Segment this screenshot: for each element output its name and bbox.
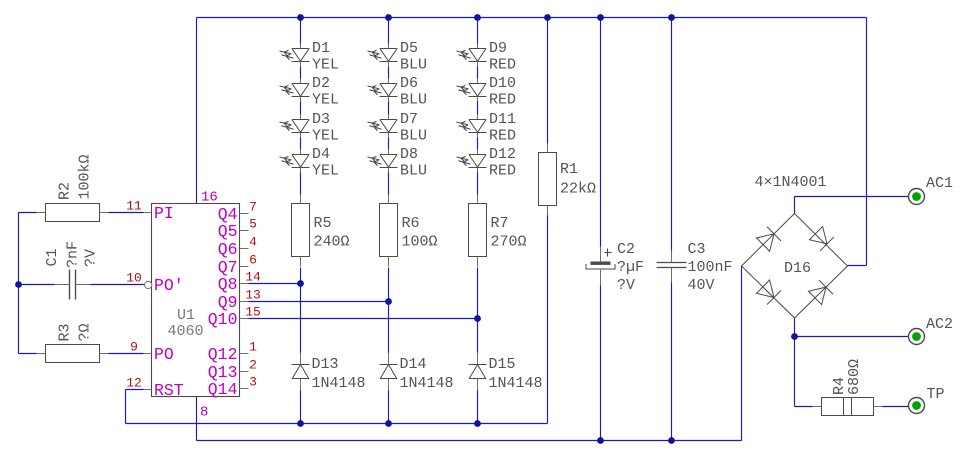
diode D13 bbox=[292, 353, 366, 393]
svg-text:R3: R3 bbox=[57, 323, 74, 341]
wire Q9 net bbox=[249, 301, 389, 303]
pin 7 Q4 bbox=[218, 200, 257, 224]
svg-text:RST: RST bbox=[154, 381, 184, 400]
wire col477 seg4 bbox=[477, 173, 479, 195]
pin 6 Q7 bbox=[218, 253, 257, 277]
svg-text:TP: TP bbox=[927, 386, 945, 403]
wire col388 mid bbox=[388, 268, 390, 353]
LED D11 bbox=[457, 111, 517, 145]
wire U1 pin16 riser bbox=[196, 18, 198, 204]
wire col300 seg4 bbox=[300, 173, 302, 195]
svg-text:BLU: BLU bbox=[400, 92, 427, 109]
wire bridge bottom drop bbox=[794, 318, 796, 407]
svg-text:D5: D5 bbox=[400, 40, 418, 57]
wire R4 to TP link bbox=[883, 406, 909, 408]
svg-text:D1: D1 bbox=[312, 40, 330, 57]
svg-text:Q5: Q5 bbox=[218, 222, 238, 241]
wire col477 bottom bbox=[477, 391, 479, 424]
wire C1 left link bbox=[19, 284, 55, 286]
wire col388 seg4 bbox=[388, 173, 390, 195]
wire right drop to bridge bbox=[866, 18, 868, 266]
svg-text:100kΩ: 100kΩ bbox=[77, 154, 94, 199]
svg-text:4: 4 bbox=[249, 235, 257, 250]
junction rail-col1 bbox=[297, 14, 304, 21]
svg-text:Q8: Q8 bbox=[218, 275, 238, 294]
junction left bus C1 bbox=[15, 281, 22, 288]
wire R1 top column bbox=[547, 18, 549, 144]
wire R2 to pin11 bbox=[109, 212, 144, 214]
wire col300 seg3 bbox=[300, 138, 302, 150]
svg-text:10: 10 bbox=[126, 271, 142, 286]
wire R3 to pin9 bbox=[109, 353, 144, 355]
svg-text:8: 8 bbox=[200, 405, 208, 421]
wire C3 top column bbox=[671, 18, 673, 251]
svg-text:1: 1 bbox=[249, 340, 257, 355]
wire R3 left link bbox=[19, 353, 37, 355]
resistor R6 bbox=[380, 195, 438, 267]
svg-text:YEL: YEL bbox=[312, 163, 339, 180]
svg-text:U1: U1 bbox=[177, 307, 195, 324]
svg-text:RED: RED bbox=[489, 57, 516, 74]
pin 2 Q13 bbox=[208, 358, 257, 382]
capacitor C1 bbox=[44, 241, 100, 300]
svg-text:BLU: BLU bbox=[400, 163, 427, 180]
LED D9 bbox=[457, 40, 517, 74]
pin 12 RST bbox=[126, 376, 184, 400]
wire col477 rail stub bbox=[477, 18, 479, 44]
svg-text:D14: D14 bbox=[400, 356, 427, 373]
svg-text:13: 13 bbox=[245, 288, 261, 303]
LED D10 bbox=[457, 75, 517, 109]
terminal AC2 bbox=[909, 316, 954, 345]
svg-text:1N4148: 1N4148 bbox=[489, 375, 543, 392]
svg-text:680Ω: 680Ω bbox=[846, 359, 863, 395]
svg-text:Q14: Q14 bbox=[208, 380, 238, 399]
terminal TP bbox=[909, 386, 945, 414]
resistor R1 bbox=[539, 144, 597, 216]
wire AC2 link bbox=[795, 336, 909, 338]
wire col300 seg1 bbox=[300, 67, 302, 79]
svg-text:D12: D12 bbox=[489, 146, 516, 163]
junction Q9-col2 bbox=[385, 298, 392, 305]
svg-text:6: 6 bbox=[249, 253, 257, 268]
wire col300 seg2 bbox=[300, 102, 302, 115]
svg-text:?nF: ?nF bbox=[65, 241, 82, 268]
svg-text:C3: C3 bbox=[688, 241, 706, 258]
wire col388 seg3 bbox=[388, 138, 390, 150]
pin 11 PI bbox=[126, 199, 174, 223]
svg-text:?Ω: ?Ω bbox=[77, 323, 94, 341]
bridge rectifier D16 bbox=[742, 174, 848, 318]
svg-text:D9: D9 bbox=[489, 40, 507, 57]
svg-text:D13: D13 bbox=[312, 356, 339, 373]
svg-text:2: 2 bbox=[249, 358, 257, 373]
IC U1 4060 body bbox=[152, 204, 240, 397]
svg-text:3: 3 bbox=[249, 375, 257, 390]
wire left bus bbox=[18, 213, 20, 354]
wire col477 seg1 bbox=[477, 67, 479, 79]
LED D3 bbox=[280, 111, 340, 145]
wire C3 bottom column bbox=[671, 283, 673, 441]
LED D2 bbox=[280, 75, 340, 109]
wire col300 bottom bbox=[300, 391, 302, 424]
resistor R4 bbox=[813, 359, 883, 416]
svg-text:9: 9 bbox=[130, 340, 138, 355]
svg-text:D3: D3 bbox=[312, 111, 330, 128]
pin 8 VSS bbox=[200, 405, 208, 421]
svg-text:AC2: AC2 bbox=[926, 316, 953, 333]
wire C2 bottom column bbox=[600, 286, 602, 441]
junction gnd-C2 bbox=[597, 437, 604, 444]
LED D4 bbox=[280, 146, 340, 180]
resistor R5 bbox=[292, 195, 350, 267]
svg-text:11: 11 bbox=[126, 199, 142, 214]
junction rail-col2 bbox=[385, 14, 392, 21]
wire col477 seg3 bbox=[477, 138, 479, 150]
svg-text:PO': PO' bbox=[154, 276, 184, 295]
wire col388 rail stub bbox=[388, 18, 390, 44]
diode D15 bbox=[469, 353, 543, 393]
wire RST drop bbox=[125, 390, 127, 424]
svg-text:R6: R6 bbox=[402, 215, 420, 232]
svg-text:?V: ?V bbox=[617, 277, 635, 294]
wire col388 bottom bbox=[388, 391, 390, 424]
wire ground rail riser to bridge bbox=[741, 266, 743, 441]
svg-text:1N4148: 1N4148 bbox=[400, 375, 454, 392]
wire diode return rail bbox=[126, 423, 548, 425]
svg-text:C2: C2 bbox=[617, 241, 635, 258]
pin 15 Q10 bbox=[208, 305, 261, 329]
svg-text:240Ω: 240Ω bbox=[314, 234, 350, 251]
wire RST link bbox=[126, 389, 144, 391]
svg-text:R5: R5 bbox=[314, 215, 332, 232]
svg-text:PI: PI bbox=[154, 204, 174, 223]
wire col300 mid bbox=[300, 268, 302, 353]
svg-text:YEL: YEL bbox=[312, 128, 339, 145]
svg-text:YEL: YEL bbox=[312, 57, 339, 74]
pin 5 Q5 bbox=[218, 217, 257, 241]
svg-text:RED: RED bbox=[489, 163, 516, 180]
pin 3 Q14 bbox=[208, 375, 257, 399]
capacitor C2 bbox=[586, 241, 644, 294]
svg-text:AC1: AC1 bbox=[926, 175, 953, 192]
svg-text:100nF: 100nF bbox=[688, 259, 733, 276]
pin 1 Q12 bbox=[208, 340, 257, 364]
svg-text:BLU: BLU bbox=[400, 128, 427, 145]
junction rail-C2 bbox=[597, 14, 604, 21]
svg-text:?µF: ?µF bbox=[617, 259, 644, 276]
wire C2 top column bbox=[600, 18, 602, 247]
LED D7 bbox=[368, 111, 428, 145]
wire col300 rail stub bbox=[300, 18, 302, 44]
svg-text:D16: D16 bbox=[784, 260, 811, 277]
svg-text:PO: PO bbox=[154, 345, 174, 364]
wire bridge top to AC1 riser bbox=[794, 197, 796, 214]
svg-text:R1: R1 bbox=[560, 161, 578, 178]
svg-text:1N4148: 1N4148 bbox=[312, 375, 366, 392]
junction Q10-col3 bbox=[474, 315, 481, 322]
pin 10 PO' bbox=[126, 271, 184, 295]
svg-text:Q10: Q10 bbox=[208, 310, 238, 329]
diode D14 bbox=[380, 353, 454, 393]
svg-text:5: 5 bbox=[249, 217, 257, 232]
LED D8 bbox=[368, 146, 428, 180]
svg-text:16: 16 bbox=[201, 190, 218, 206]
svg-text:D15: D15 bbox=[489, 356, 516, 373]
svg-text:R2: R2 bbox=[57, 182, 74, 200]
junction rail-col3 bbox=[474, 14, 481, 21]
wire R4 left link bbox=[795, 406, 813, 408]
junction rail-C3 bbox=[668, 14, 675, 21]
svg-text:?V: ?V bbox=[83, 249, 100, 267]
pin 14 Q8 bbox=[218, 270, 261, 294]
pin 9 PO bbox=[130, 340, 174, 364]
svg-text:270Ω: 270Ω bbox=[491, 234, 527, 251]
wire U1 pin8 drop bbox=[196, 397, 198, 441]
junction return-col2 bbox=[385, 420, 392, 427]
wire col388 seg2 bbox=[388, 102, 390, 115]
junction return-col3 bbox=[474, 420, 481, 427]
svg-text:D7: D7 bbox=[400, 111, 418, 128]
svg-text:D4: D4 bbox=[312, 146, 330, 163]
LED D5 bbox=[368, 40, 428, 74]
junction return-col1 bbox=[297, 420, 304, 427]
svg-text:RED: RED bbox=[489, 92, 516, 109]
svg-text:14: 14 bbox=[245, 270, 261, 285]
svg-text:RED: RED bbox=[489, 128, 516, 145]
svg-text:22kΩ: 22kΩ bbox=[560, 181, 596, 198]
svg-text:100Ω: 100Ω bbox=[402, 234, 438, 251]
resistor R7 bbox=[469, 195, 527, 267]
junction rail-R1 bbox=[544, 14, 551, 21]
svg-text:Q12: Q12 bbox=[208, 345, 238, 364]
pin 16 VDD bbox=[201, 190, 218, 206]
wire Q10 net bbox=[249, 318, 478, 320]
svg-text:D6: D6 bbox=[400, 75, 418, 92]
wire C1 to pin10 bbox=[91, 284, 145, 286]
wire R2 left link bbox=[19, 212, 37, 214]
junction Q8-col1 bbox=[297, 280, 304, 287]
svg-text:Q6: Q6 bbox=[218, 240, 238, 259]
resistor R3 bbox=[37, 323, 109, 362]
wire col388 seg1 bbox=[388, 67, 390, 79]
wire col477 seg2 bbox=[477, 102, 479, 115]
wire ground rail bbox=[197, 440, 742, 442]
junction gnd-C3 bbox=[668, 437, 675, 444]
junction bridge-AC2 bbox=[791, 333, 798, 340]
svg-text:D10: D10 bbox=[489, 75, 516, 92]
terminal AC1 bbox=[909, 175, 954, 205]
wire col477 mid bbox=[477, 268, 479, 353]
LED D12 bbox=[457, 146, 517, 180]
svg-text:D11: D11 bbox=[489, 111, 516, 128]
capacitor C3 bbox=[657, 241, 733, 294]
svg-text:40V: 40V bbox=[688, 277, 715, 294]
svg-text:4×1N4001: 4×1N4001 bbox=[755, 174, 827, 191]
wire Q8 net bbox=[249, 283, 301, 285]
wire R1 bottom column bbox=[547, 213, 549, 424]
resistor R2 bbox=[37, 154, 109, 221]
pin 4 Q6 bbox=[218, 235, 257, 259]
svg-text:12: 12 bbox=[126, 376, 142, 391]
svg-text:D2: D2 bbox=[312, 75, 330, 92]
pin 13 Q9 bbox=[218, 288, 261, 312]
svg-text:7: 7 bbox=[249, 200, 257, 215]
wire top power rail bbox=[197, 17, 867, 19]
svg-text:YEL: YEL bbox=[312, 92, 339, 109]
svg-text:BLU: BLU bbox=[400, 57, 427, 74]
svg-text:15: 15 bbox=[245, 305, 261, 320]
wire AC1 link bbox=[795, 196, 909, 198]
svg-text:R7: R7 bbox=[491, 215, 509, 232]
svg-text:4060: 4060 bbox=[168, 323, 204, 340]
svg-text:D8: D8 bbox=[400, 146, 418, 163]
LED D6 bbox=[368, 75, 428, 109]
svg-text:C1: C1 bbox=[44, 248, 61, 266]
wire bridge right vertex link bbox=[848, 265, 867, 267]
LED D1 bbox=[280, 40, 340, 74]
